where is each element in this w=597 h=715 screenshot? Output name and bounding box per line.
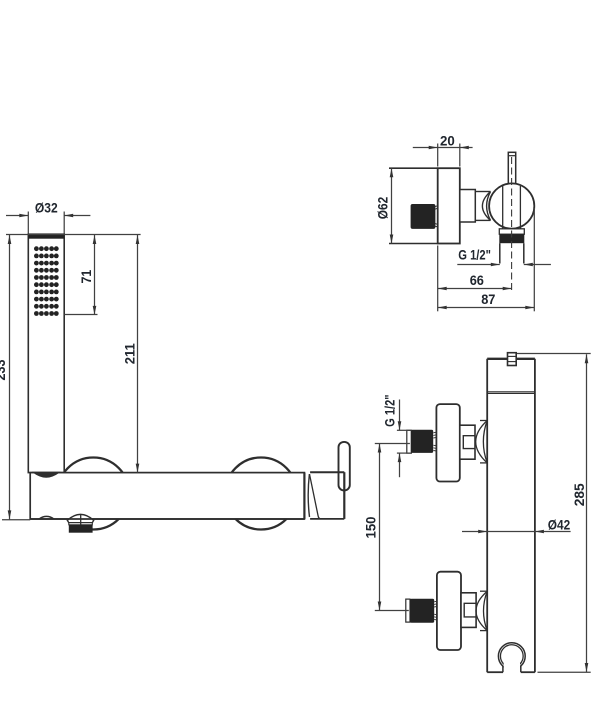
body bottom edge over dome	[30, 518, 304, 520]
outlet centerline tick	[80, 514, 82, 524]
hand shower holder ring	[498, 643, 525, 673]
label 71	[78, 270, 94, 284]
thread relief marks at knob	[435, 206, 438, 227]
label 20	[440, 132, 455, 148]
lower escutcheon (side)	[437, 572, 461, 650]
upper wall connection: pipe stub	[407, 430, 412, 453]
label 150	[363, 516, 379, 538]
dimension G 1/2" (side view)	[397, 400, 412, 478]
dashed centerline	[511, 157, 513, 291]
outlet knurled nut (dark)	[69, 525, 93, 533]
lever handle (front view)	[339, 442, 350, 491]
svg-text:G 1/2": G 1/2"	[458, 247, 491, 263]
dimension Ø32	[6, 212, 90, 234]
dimension 211	[136, 235, 140, 473]
G 1/2 leader (top view)	[457, 263, 551, 267]
left wall escutcheon circle	[57, 458, 129, 530]
end cap of body	[310, 472, 344, 519]
cylinder silhouette lines inside circle	[503, 186, 521, 229]
dimension Ø42	[462, 530, 571, 534]
label Ø32	[35, 200, 58, 216]
svg-text:20: 20	[440, 132, 455, 148]
svg-text:87: 87	[481, 291, 495, 307]
mixer body (horizontal bar)	[30, 473, 304, 519]
label 211	[121, 343, 137, 364]
lower connector block	[461, 593, 476, 628]
wall plate (20 thick)	[438, 168, 460, 243]
spray end extension line (71)	[64, 314, 97, 316]
upper knurled nut (dark)	[411, 430, 433, 453]
svg-text:Ø32: Ø32	[35, 200, 58, 216]
outlet knurled ring (dark)	[499, 234, 524, 243]
upper connector block	[460, 425, 475, 459]
svg-text:150: 150	[363, 516, 379, 538]
dimension 66	[438, 287, 512, 291]
upper connector inner step	[463, 436, 475, 449]
upper escutcheon (side)	[436, 404, 459, 481]
connector step 1	[460, 190, 476, 223]
end cap slant line	[310, 474, 322, 519]
column body	[487, 359, 535, 672]
dimension 233	[8, 235, 12, 519]
hand shower head cap (dark band)	[28, 234, 64, 239]
upper bell mouth	[476, 421, 488, 463]
lower bell mouth	[476, 591, 487, 630]
label 233	[0, 359, 8, 380]
label 87	[481, 291, 495, 307]
valve body circle	[489, 183, 534, 228]
hand shower tube	[28, 234, 64, 472]
svg-text:71: 71	[78, 270, 94, 284]
label 285	[571, 483, 587, 506]
label G 1/2" (side view)	[382, 395, 398, 427]
svg-text:Ø62: Ø62	[374, 197, 390, 220]
label Ø42	[548, 516, 571, 532]
svg-text:285: 285	[571, 483, 587, 506]
lower knurled nut (dark)	[410, 599, 434, 623]
outlet collar band	[69, 523, 93, 525]
upper thread marks	[433, 432, 436, 451]
knurled stop knob (top view, dark)	[411, 204, 436, 229]
dimension 87	[438, 208, 535, 311]
label G 1/2" (top view)	[458, 247, 491, 263]
svg-text:211: 211	[121, 343, 137, 364]
bell mouth arcs	[482, 192, 490, 221]
label 66	[470, 272, 484, 288]
outlet aerator ring (light)	[499, 229, 524, 234]
outlet pipe below	[500, 243, 524, 263]
body bottom extension line (233)	[2, 519, 30, 521]
connector step 2	[475, 192, 490, 221]
lever stem (top view)	[508, 152, 515, 184]
shower holder cup arc (below body top, dark)	[34, 473, 58, 477]
in-wall body rectangle	[389, 168, 438, 243]
top cap joint lines	[487, 392, 535, 394]
lower thread marks	[434, 601, 437, 620]
diverter knob on top	[508, 353, 517, 366]
dimension 71	[93, 235, 97, 315]
label Ø62	[374, 197, 390, 220]
lower connector inner step	[464, 603, 476, 617]
right wall escutcheon circle	[225, 458, 297, 530]
joint ring curve at body right end	[308, 474, 309, 517]
head top extension line	[6, 234, 141, 236]
hose outlet dome below body	[67, 514, 93, 522]
lower wall connection: pipe stub	[406, 599, 410, 622]
svg-text:G 1/2": G 1/2"	[382, 395, 398, 427]
svg-text:233: 233	[0, 359, 8, 380]
svg-text:Ø42: Ø42	[548, 516, 571, 532]
dimension 20	[413, 144, 473, 167]
dimension 285	[517, 354, 591, 673]
dimension 150	[375, 444, 410, 611]
body right end thick edge	[303, 473, 305, 519]
dimension Ø62	[390, 168, 394, 243]
holder cup bottom bump on body lower edge	[39, 516, 54, 519]
svg-text:66: 66	[470, 272, 484, 288]
spray face dots	[34, 246, 59, 316]
